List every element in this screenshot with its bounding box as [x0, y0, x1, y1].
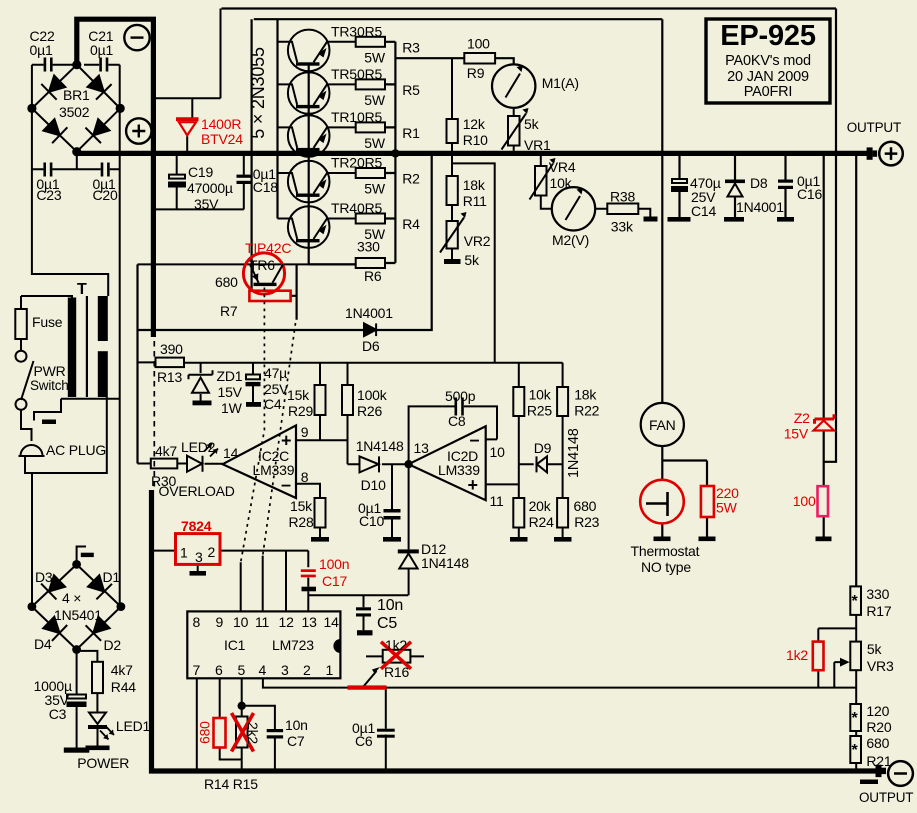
svg-text:680: 680 — [866, 735, 889, 751]
svg-text:M2(V): M2(V) — [552, 232, 589, 248]
svg-text:18k: 18k — [463, 177, 486, 193]
svg-text:PWR: PWR — [34, 363, 66, 379]
svg-text:1N4148: 1N4148 — [421, 555, 469, 571]
svg-text:1: 1 — [326, 662, 334, 678]
svg-text:VR4: VR4 — [549, 159, 576, 175]
svg-text:1400R: 1400R — [201, 116, 241, 132]
svg-text:2k2: 2k2 — [245, 722, 261, 744]
svg-text:20 JAN 2009: 20 JAN 2009 — [727, 69, 809, 85]
svg-text:1k2: 1k2 — [385, 637, 407, 653]
svg-text:10k: 10k — [550, 175, 573, 191]
svg-text:TR3: TR3 — [331, 24, 357, 40]
svg-text:TR1: TR1 — [331, 109, 357, 125]
svg-text:VR2: VR2 — [464, 233, 491, 249]
svg-text:Thermostat: Thermostat — [631, 543, 700, 559]
svg-text:9: 9 — [216, 614, 224, 630]
svg-text:TR6: TR6 — [249, 257, 275, 273]
svg-text:T: T — [77, 281, 87, 298]
svg-text:20k: 20k — [529, 498, 552, 514]
svg-text:3: 3 — [195, 549, 203, 565]
svg-text:C3: C3 — [49, 706, 67, 722]
svg-text:ZD1: ZD1 — [217, 368, 243, 384]
svg-text:C23: C23 — [36, 187, 61, 203]
svg-text:100n: 100n — [319, 556, 349, 572]
svg-text:R26: R26 — [357, 403, 382, 419]
svg-text:330: 330 — [866, 586, 889, 602]
svg-text:D1: D1 — [103, 569, 121, 585]
svg-text:5W: 5W — [364, 50, 386, 66]
svg-text:M1(A): M1(A) — [542, 75, 579, 91]
svg-text:R25: R25 — [527, 403, 552, 419]
svg-text:0R5: 0R5 — [357, 155, 382, 171]
svg-text:D4: D4 — [34, 636, 52, 652]
svg-text:R20: R20 — [866, 719, 891, 735]
svg-text:330: 330 — [357, 239, 380, 255]
svg-text:0R5: 0R5 — [357, 109, 382, 125]
svg-text:R6: R6 — [364, 268, 382, 284]
svg-text:OUTPUT: OUTPUT — [859, 790, 913, 805]
svg-text:0µ1: 0µ1 — [30, 42, 53, 58]
svg-text:VR1: VR1 — [524, 137, 551, 153]
svg-text:15k: 15k — [287, 387, 310, 403]
svg-text:R5: R5 — [402, 82, 420, 98]
svg-text:R17: R17 — [866, 603, 891, 619]
svg-text:+: + — [281, 431, 291, 451]
svg-text:R11: R11 — [463, 193, 487, 209]
svg-text:AC PLUG: AC PLUG — [46, 442, 106, 458]
svg-text:13: 13 — [302, 614, 318, 630]
svg-text:8: 8 — [301, 469, 309, 485]
svg-text:2: 2 — [303, 662, 311, 678]
svg-text:7824: 7824 — [181, 518, 212, 534]
svg-text:0µ1: 0µ1 — [90, 42, 113, 58]
svg-text:5W: 5W — [364, 92, 386, 108]
svg-text:4: 4 — [259, 662, 267, 678]
svg-text:1: 1 — [180, 545, 188, 561]
svg-text:10n: 10n — [285, 717, 308, 733]
svg-text:35V: 35V — [194, 196, 219, 212]
svg-text:18k: 18k — [574, 387, 597, 403]
svg-text:C8: C8 — [448, 413, 466, 429]
svg-text:C6: C6 — [355, 733, 373, 749]
svg-text:C19: C19 — [188, 164, 213, 180]
svg-text:Switch: Switch — [30, 378, 69, 393]
svg-text:*: * — [852, 742, 859, 759]
svg-text:R1: R1 — [402, 125, 420, 141]
svg-text:11: 11 — [255, 614, 270, 630]
svg-text:15V: 15V — [218, 384, 243, 400]
svg-text:1N4148: 1N4148 — [566, 428, 582, 478]
svg-text:12k: 12k — [463, 116, 486, 132]
svg-text:C10: C10 — [359, 513, 384, 529]
svg-text:Fuse: Fuse — [32, 314, 63, 330]
svg-text:47000µ: 47000µ — [187, 180, 233, 196]
svg-text:100k: 100k — [357, 387, 388, 403]
svg-text:IC1: IC1 — [224, 637, 246, 653]
svg-text:0R5: 0R5 — [357, 200, 382, 216]
svg-text:14: 14 — [324, 614, 340, 630]
svg-text:1N5401: 1N5401 — [54, 607, 102, 623]
svg-text:5k: 5k — [464, 252, 480, 268]
svg-text:7: 7 — [193, 662, 201, 678]
svg-text:13: 13 — [414, 440, 430, 456]
svg-text:TIP42C: TIP42C — [245, 240, 291, 256]
svg-text:0R5: 0R5 — [357, 66, 382, 82]
svg-text:14: 14 — [223, 445, 239, 461]
svg-text:BTV24: BTV24 — [201, 131, 243, 147]
svg-text:5: 5 — [238, 662, 246, 678]
svg-text:15k: 15k — [290, 498, 313, 514]
svg-text:5W: 5W — [364, 135, 386, 151]
svg-text:5k: 5k — [867, 641, 883, 657]
svg-text:C4: C4 — [264, 396, 282, 412]
svg-text:4k7: 4k7 — [155, 443, 177, 459]
svg-text:EP-925: EP-925 — [720, 20, 816, 52]
svg-text:10k: 10k — [529, 387, 552, 403]
svg-text:C17: C17 — [322, 573, 347, 589]
svg-text:–: – — [281, 475, 291, 495]
svg-text:5 × 2N3055: 5 × 2N3055 — [248, 47, 268, 139]
svg-text:R14 R15: R14 R15 — [204, 776, 258, 792]
svg-text:BR1: BR1 — [63, 87, 90, 103]
svg-text:12: 12 — [279, 614, 295, 630]
svg-text:C18: C18 — [253, 179, 278, 195]
svg-text:11: 11 — [490, 493, 505, 509]
svg-text:3502: 3502 — [59, 104, 90, 120]
svg-text:4 ×: 4 × — [62, 590, 81, 606]
svg-text:C20: C20 — [93, 187, 118, 203]
svg-text:*: * — [852, 710, 859, 727]
svg-text:FAN: FAN — [649, 417, 676, 433]
svg-text:C5: C5 — [377, 615, 397, 632]
svg-text:R44: R44 — [111, 679, 136, 695]
svg-text:D9: D9 — [534, 440, 552, 456]
svg-text:+: + — [468, 475, 478, 495]
svg-text:1k2: 1k2 — [786, 647, 808, 663]
svg-text:10: 10 — [233, 614, 249, 630]
svg-text:680: 680 — [574, 498, 597, 514]
svg-text:33k: 33k — [611, 219, 634, 235]
svg-text:1N4001: 1N4001 — [736, 199, 784, 215]
svg-text:680: 680 — [197, 721, 213, 744]
svg-text:0R5: 0R5 — [357, 24, 382, 40]
svg-text:100: 100 — [793, 493, 816, 509]
svg-text:*: * — [852, 593, 859, 610]
svg-text:R24: R24 — [529, 514, 554, 530]
svg-text:R29: R29 — [288, 403, 313, 419]
svg-text:OVERLOAD: OVERLOAD — [159, 483, 235, 499]
svg-text:R7: R7 — [220, 303, 238, 319]
svg-text:TR4: TR4 — [331, 200, 357, 216]
svg-text:D3: D3 — [35, 569, 53, 585]
svg-text:R9: R9 — [467, 65, 485, 81]
svg-text:C7: C7 — [287, 733, 305, 749]
svg-text:10: 10 — [490, 444, 506, 460]
svg-text:R16: R16 — [384, 664, 409, 680]
svg-text:NO type: NO type — [641, 559, 691, 575]
svg-text:390: 390 — [160, 341, 183, 357]
svg-text:OUTPUT: OUTPUT — [847, 120, 901, 135]
svg-text:VR3: VR3 — [867, 658, 894, 674]
svg-text:LED2: LED2 — [181, 439, 216, 455]
svg-text:500p: 500p — [445, 388, 476, 404]
svg-text:6: 6 — [215, 662, 223, 678]
svg-text:D2: D2 — [104, 637, 122, 653]
svg-text:8: 8 — [193, 614, 201, 630]
svg-text:R38: R38 — [610, 189, 635, 205]
svg-text:PA0FRI: PA0FRI — [744, 84, 793, 100]
svg-text:1N4001: 1N4001 — [345, 305, 393, 321]
svg-text:TR5: TR5 — [331, 66, 357, 82]
svg-text:1W: 1W — [221, 400, 243, 416]
svg-text:D8: D8 — [750, 175, 768, 191]
svg-text:D6: D6 — [362, 338, 380, 354]
svg-text:R28: R28 — [289, 514, 314, 530]
svg-text:4k7: 4k7 — [111, 662, 133, 678]
svg-text:TR2: TR2 — [331, 155, 357, 171]
svg-text:R2: R2 — [402, 171, 420, 187]
svg-text:R10: R10 — [463, 132, 488, 148]
svg-text:Z2: Z2 — [794, 410, 810, 426]
svg-text:680: 680 — [215, 274, 238, 290]
svg-text:C14: C14 — [691, 203, 716, 219]
svg-text:10n: 10n — [377, 597, 403, 614]
svg-text:R23: R23 — [574, 514, 599, 530]
svg-text:LM723: LM723 — [272, 637, 314, 653]
svg-text:5k: 5k — [524, 116, 540, 132]
svg-text:R3: R3 — [402, 40, 420, 56]
svg-text:R22: R22 — [574, 403, 599, 419]
svg-text:100: 100 — [467, 36, 490, 52]
svg-text:D10: D10 — [361, 477, 386, 493]
svg-text:3: 3 — [281, 662, 289, 678]
svg-text:47µ: 47µ — [264, 365, 287, 381]
svg-text:PA0KV's mod: PA0KV's mod — [725, 53, 811, 69]
svg-text:R13: R13 — [157, 369, 182, 385]
svg-text:C16: C16 — [797, 186, 822, 202]
svg-text:15V: 15V — [784, 426, 809, 442]
svg-text:2: 2 — [208, 544, 216, 560]
svg-text:R4: R4 — [402, 216, 420, 232]
svg-text:5W: 5W — [716, 500, 738, 516]
svg-text:1N4148: 1N4148 — [356, 438, 404, 454]
svg-text:120: 120 — [866, 703, 889, 719]
svg-text:9: 9 — [301, 424, 309, 440]
svg-text:–: – — [470, 430, 480, 450]
svg-text:POWER: POWER — [77, 755, 129, 771]
svg-text:5W: 5W — [364, 181, 386, 197]
svg-text:LED1: LED1 — [116, 718, 151, 734]
